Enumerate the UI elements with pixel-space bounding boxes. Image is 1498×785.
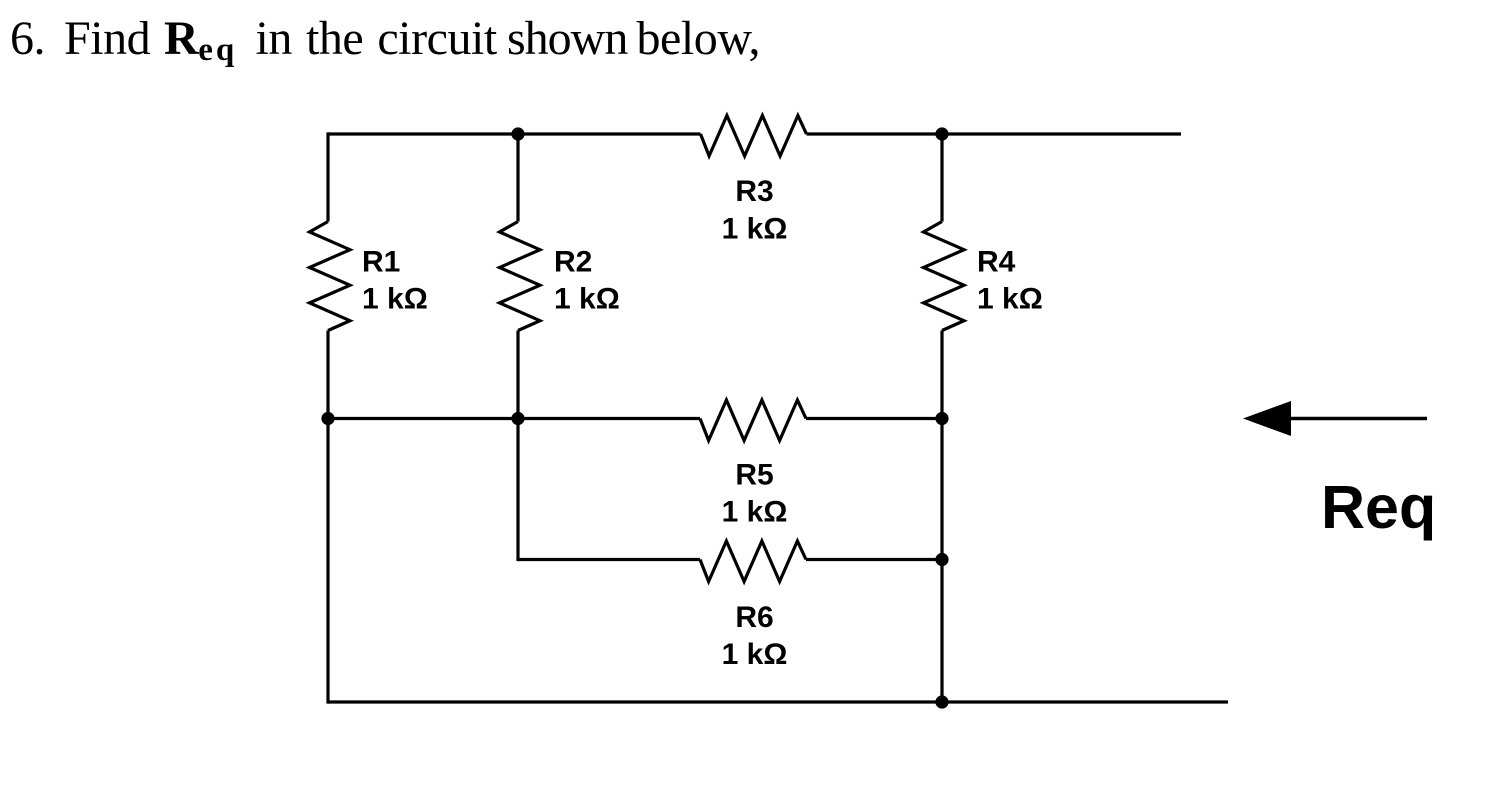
junction: middle node right bbox=[935, 412, 948, 425]
svg-text:R5: R5 bbox=[735, 459, 773, 492]
wire: R2 upper lead bbox=[516, 134, 519, 222]
resistor R6 bbox=[700, 541, 806, 582]
junction: R6 node right bbox=[935, 553, 948, 566]
svg-text:1 kΩ: 1 kΩ bbox=[722, 638, 788, 671]
wire: R1 upper lead bbox=[326, 132, 329, 221]
wire: bottom rail bbox=[328, 700, 1228, 703]
svg-text:Req: Req bbox=[1321, 473, 1436, 541]
wire: top rail left segment bbox=[328, 132, 701, 135]
wire: top rail right segment bbox=[807, 132, 1182, 135]
wire: R4 lower lead bbox=[940, 331, 943, 703]
resistor R4 bbox=[924, 222, 965, 331]
junction: top node at R2 branch bbox=[511, 127, 524, 140]
wire: R4 upper lead bbox=[940, 134, 943, 222]
svg-text:1 kΩ: 1 kΩ bbox=[554, 283, 620, 316]
wire: R1 lower lead bbox=[326, 331, 329, 704]
svg-text:1 kΩ: 1 kΩ bbox=[362, 283, 428, 316]
arrow: Req direction shaft bbox=[1291, 417, 1427, 420]
svg-text:1 kΩ: 1 kΩ bbox=[722, 213, 788, 246]
junction: bottom node right bbox=[935, 695, 948, 708]
svg-text:R2: R2 bbox=[554, 246, 592, 279]
wire: middle rail right segment bbox=[806, 417, 942, 420]
svg-text:1 kΩ: 1 kΩ bbox=[977, 283, 1043, 316]
svg-text:R4: R4 bbox=[977, 246, 1016, 279]
arrow: Req direction head bbox=[1243, 401, 1291, 436]
wire: R6 rail right segment bbox=[806, 558, 942, 561]
svg-text:1 kΩ: 1 kΩ bbox=[722, 496, 788, 529]
svg-text:R1: R1 bbox=[362, 246, 400, 279]
resistor R5 bbox=[700, 400, 806, 441]
resistor R1 bbox=[310, 222, 351, 331]
title text bbox=[10, 15, 45, 63]
svg-text:R6: R6 bbox=[735, 601, 773, 634]
resistor R2 bbox=[500, 222, 541, 331]
svg-text:R3: R3 bbox=[735, 175, 773, 208]
wire: R6 rail left segment bbox=[518, 558, 700, 561]
wire: R2 lower lead bbox=[516, 331, 519, 562]
wire: middle rail left segment bbox=[328, 417, 700, 420]
junction: middle node at R2 branch bbox=[511, 412, 524, 425]
junction: top node at R4 branch bbox=[935, 127, 948, 140]
junction: middle node left bbox=[321, 412, 334, 425]
resistor R3 bbox=[701, 116, 807, 157]
